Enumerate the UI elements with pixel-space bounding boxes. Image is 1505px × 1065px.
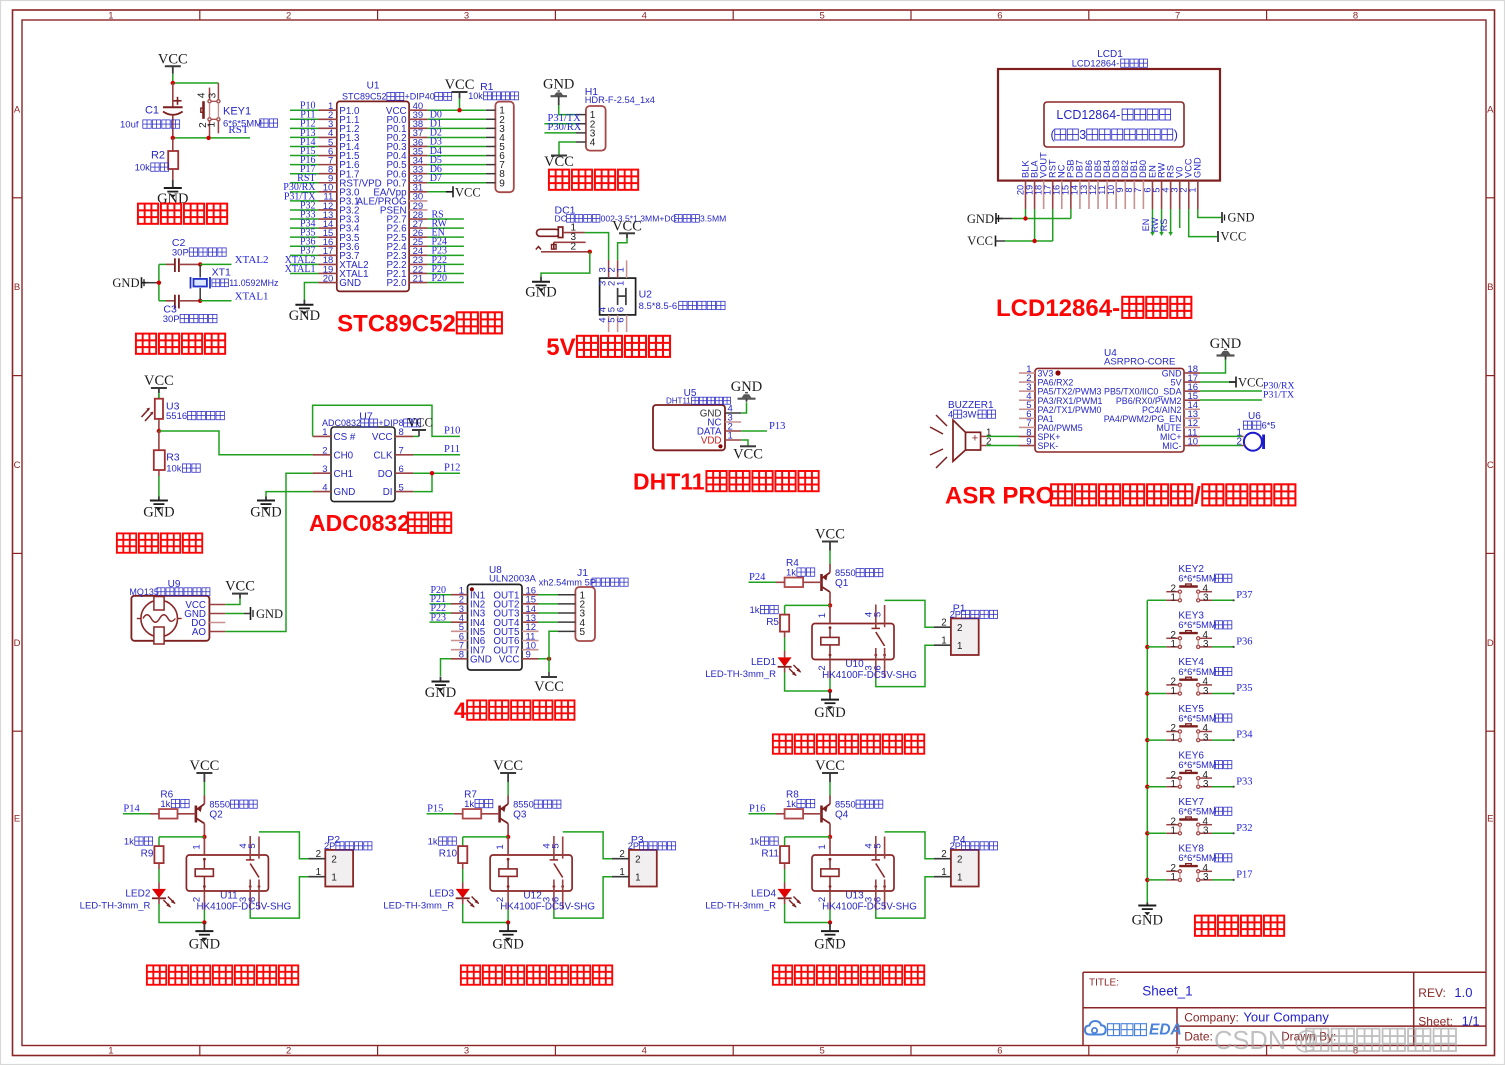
wire PB6 to P31/TX: [1200, 390, 1294, 401]
wire KEY5 to P34: [1212, 730, 1253, 742]
port VCC (LCD left): [967, 234, 1005, 248]
transistor Q1 8550: [822, 564, 883, 605]
wire relay COM to P2 pin1: [250, 877, 308, 918]
svg-text:VCC: VCC: [144, 373, 174, 389]
svg-text:VCC: VCC: [499, 654, 520, 665]
svg-text:D: D: [1487, 638, 1494, 649]
transistor Q3 8550: [500, 796, 561, 837]
svg-text:P36: P36: [1236, 637, 1252, 648]
svg-text:VCC: VCC: [225, 579, 255, 595]
svg-text:VCC: VCC: [612, 218, 642, 234]
svg-text:STC89C52: STC89C52: [342, 92, 387, 102]
svg-text:1k: 1k: [428, 837, 438, 848]
svg-text:DC: DC: [555, 214, 567, 224]
microphone U6: [1237, 411, 1276, 451]
label 晶振电路: [136, 334, 225, 354]
svg-text:AO: AO: [192, 627, 207, 638]
svg-text:6*6*5MM: 6*6*5MM: [1178, 807, 1216, 817]
ground (U5): [731, 379, 762, 402]
port GND (U9): [251, 607, 284, 621]
wire P16 net: [749, 804, 776, 815]
svg-text:U2: U2: [639, 289, 653, 301]
port GND (LCD left): [967, 212, 1012, 226]
power flag VCC (R1): [445, 77, 475, 110]
svg-text:6*6*5MM: 6*6*5MM: [1178, 713, 1216, 723]
wire P14 net: [123, 804, 150, 815]
svg-text:GND: GND: [289, 308, 320, 324]
mcu U1 STC89C52: [319, 81, 452, 292]
wire LCD pin2 vcc right: [1189, 209, 1217, 237]
svg-text:LED3: LED3: [429, 889, 454, 900]
svg-text:P23: P23: [430, 612, 446, 623]
svg-text:GND: GND: [492, 937, 523, 953]
svg-text:7: 7: [399, 446, 404, 457]
svg-text:GND: GND: [525, 284, 556, 300]
svg-text:4: 4: [948, 410, 953, 420]
gas sensor U9 MQ135: [129, 579, 225, 644]
svg-text:VCC: VCC: [189, 758, 219, 774]
svg-text:P13: P13: [769, 421, 785, 432]
svg-text:1: 1: [616, 281, 627, 286]
svg-text:VCC: VCC: [534, 679, 564, 695]
svg-text:1: 1: [616, 267, 627, 272]
svg-text:2: 2: [331, 855, 336, 866]
svg-text:8: 8: [399, 427, 404, 438]
wire VDD to VCC: [718, 440, 748, 448]
svg-text:P34: P34: [1236, 730, 1253, 741]
svg-text:ASRPRO-CORE: ASRPRO-CORE: [1104, 357, 1175, 368]
svg-text:+DIP40: +DIP40: [404, 92, 434, 102]
svg-text:3: 3: [1203, 686, 1209, 697]
svg-text:5V: 5V: [546, 334, 575, 361]
svg-text:GND: GND: [339, 278, 361, 289]
led LED4: [705, 889, 830, 923]
wire U4 GND: [1200, 360, 1226, 374]
svg-text:1k: 1k: [749, 605, 759, 616]
svg-text:1: 1: [728, 431, 733, 442]
svg-text:C: C: [14, 460, 21, 471]
wire KEY3 left: [1147, 646, 1166, 648]
relay U13 HK4100F: [812, 836, 917, 923]
wire KEY6 left: [1147, 786, 1166, 788]
label 4相步进电机: [454, 698, 574, 723]
label ADC0832芯片: [309, 510, 451, 536]
svg-text:4: 4: [322, 482, 327, 493]
pushbutton KEY3: [1166, 611, 1232, 651]
svg-text:CS #: CS #: [334, 432, 356, 443]
label 下载接口: [549, 170, 638, 190]
port GND (LCD right): [1222, 211, 1255, 225]
svg-text:LED-TH-3mm_R: LED-TH-3mm_R: [705, 669, 776, 680]
power flag VCC (reset circuit): [158, 51, 188, 83]
wire U3/R3 junction to ADC CH0: [157, 429, 313, 455]
mcu right stubs P2/RS/RW/EN: [427, 209, 464, 283]
svg-text:CLK: CLK: [373, 450, 393, 461]
svg-text:VCC: VCC: [815, 527, 845, 543]
svg-text:Date:: Date:: [1184, 1029, 1213, 1043]
svg-text:5: 5: [819, 11, 824, 22]
wire KEY4 to P35: [1212, 683, 1253, 695]
ground (U7): [250, 497, 281, 521]
svg-text:1: 1: [1188, 187, 1198, 192]
svg-text:1: 1: [1171, 779, 1176, 790]
label 制冷控制继电器: [773, 965, 924, 984]
resistor R5: [749, 605, 789, 657]
svg-text:5: 5: [551, 843, 562, 848]
svg-text:GND: GND: [1132, 913, 1163, 929]
svg-text:10k: 10k: [166, 464, 182, 475]
terminal P2: [308, 834, 372, 887]
svg-text:C: C: [1487, 460, 1494, 471]
wire VCC to C1/KEY1: [171, 81, 219, 85]
svg-text:R5: R5: [766, 617, 779, 628]
svg-text:8.5*8.5-6: 8.5*8.5-6: [639, 301, 678, 312]
relay U11 HK4100F: [186, 836, 291, 923]
svg-text:2P: 2P: [324, 841, 335, 851]
power flag VCC (U7): [407, 416, 433, 437]
svg-text:1k: 1k: [749, 837, 759, 848]
svg-text:3: 3: [1203, 779, 1209, 790]
svg-text:6*6*5MM: 6*6*5MM: [1178, 574, 1216, 584]
svg-text:6: 6: [616, 317, 627, 322]
wire U9 AO to ADC CH1: [225, 473, 312, 631]
svg-text:+: +: [972, 433, 978, 445]
mcu GND wire + ground: [289, 283, 320, 324]
resistor R3: [154, 431, 200, 497]
label 加湿控制继电器: [773, 734, 924, 753]
ground (keyboard): [1132, 903, 1163, 929]
capacitor C3: [163, 295, 217, 325]
svg-text:8550: 8550: [835, 568, 856, 578]
wire KEY5 left: [1147, 739, 1166, 741]
svg-text:2P: 2P: [950, 841, 961, 851]
svg-text:Your Company: Your Company: [1243, 1009, 1329, 1024]
svg-text:1: 1: [957, 641, 962, 652]
buzzer BUZZER1: [930, 400, 996, 468]
ground (U11): [189, 923, 220, 953]
svg-text:6: 6: [997, 1046, 1002, 1057]
wire XTAL1 net: [200, 290, 268, 302]
svg-text:GND: GND: [256, 607, 283, 621]
wire XTAL2 net: [200, 254, 268, 266]
wire U8 VCC / J1 pin5: [538, 631, 558, 672]
svg-text:HDR-F-2.54_1x4: HDR-F-2.54_1x4: [585, 95, 655, 105]
wire DATA to P13: [741, 421, 785, 432]
wire P30/RX stub: [544, 122, 581, 133]
wire relay NO to P4 pin2: [885, 832, 934, 859]
svg-text:P16: P16: [749, 804, 765, 815]
label ASR PRO语音识别模块/语音播报: [945, 483, 1295, 510]
capacitor C1: [120, 83, 183, 138]
wire LCD gnd row (pins 20,15): [1012, 209, 1071, 221]
power flag VCC (Q4): [815, 758, 845, 796]
svg-text:HK4100F-DC5V-SHG: HK4100F-DC5V-SHG: [822, 670, 917, 681]
svg-text:Sheet_1: Sheet_1: [1142, 984, 1192, 999]
svg-text:5516: 5516: [166, 411, 187, 422]
svg-text:1: 1: [635, 873, 640, 884]
svg-text:9: 9: [1026, 436, 1031, 447]
wire U7 GND: [266, 492, 313, 497]
svg-text:20: 20: [323, 273, 334, 284]
wire buzzer to SPK-: [986, 445, 1019, 447]
wire U8 GND: [441, 659, 452, 676]
svg-text:2: 2: [316, 849, 321, 860]
resistor R6: [150, 790, 196, 819]
svg-text:1: 1: [1171, 872, 1176, 883]
wire DO/DI to P12: [413, 462, 460, 491]
svg-text:VCC: VCC: [1238, 376, 1264, 390]
svg-text:2: 2: [286, 11, 291, 22]
svg-text:10k: 10k: [468, 91, 483, 101]
label 制热控制继电器: [461, 965, 612, 984]
svg-text:8550: 8550: [209, 800, 230, 810]
svg-text:8550: 8550: [513, 800, 534, 810]
ground (reset circuit): [157, 180, 188, 207]
svg-text:2P: 2P: [950, 610, 961, 620]
svg-text:Sheet:: Sheet:: [1418, 1015, 1453, 1029]
label STC89C52芯片: [337, 311, 502, 338]
transistor Q2 8550: [196, 796, 257, 837]
svg-text:4: 4: [454, 698, 467, 723]
svg-text:2: 2: [941, 849, 946, 860]
svg-text:10: 10: [1188, 436, 1199, 447]
svg-text:DHT11: DHT11: [666, 397, 691, 406]
svg-text:1: 1: [316, 867, 321, 878]
svg-text:4: 4: [642, 1046, 647, 1057]
svg-text:1: 1: [1171, 593, 1176, 604]
svg-text:1: 1: [322, 427, 327, 438]
svg-text:R11: R11: [761, 849, 779, 860]
svg-text:A: A: [14, 104, 21, 115]
pushbutton KEY2: [1166, 564, 1232, 604]
ground (U3/R3): [143, 497, 174, 521]
svg-text:6: 6: [616, 307, 627, 312]
svg-text:6*6*5MM: 6*6*5MM: [1178, 620, 1216, 630]
wire U4 MIC- to U6: [1200, 445, 1242, 447]
svg-text:VDD: VDD: [701, 436, 722, 447]
svg-text:3.5MM: 3.5MM: [700, 214, 726, 224]
svg-text:HK4100F-DC5V-SHG: HK4100F-DC5V-SHG: [500, 901, 595, 912]
svg-text:R3: R3: [166, 452, 180, 464]
svg-text:5: 5: [873, 612, 884, 617]
power flag VCC (U3): [144, 373, 174, 399]
led LED2: [80, 889, 205, 923]
svg-text:3: 3: [1203, 732, 1209, 743]
ground (U10): [814, 691, 845, 721]
wire PB5 to P30/RX: [1200, 381, 1295, 392]
svg-text:6*6*5MM: 6*6*5MM: [1178, 853, 1216, 863]
mcu left net stubs: [283, 101, 318, 275]
svg-text:3: 3: [208, 92, 219, 98]
resistor R10: [428, 837, 468, 889]
svg-text:6*6*5MM: 6*6*5MM: [1178, 760, 1216, 770]
title block: [1083, 972, 1486, 1045]
svg-text:1: 1: [108, 1046, 113, 1057]
ground (U8): [425, 677, 456, 702]
svg-text:TITLE:: TITLE:: [1089, 978, 1119, 989]
wire keyboard gnd bus: [1145, 600, 1149, 903]
led LED1: [705, 657, 830, 691]
svg-text:GND: GND: [1193, 157, 1203, 178]
svg-text:P33: P33: [1236, 776, 1252, 787]
power flag VCC (DC1): [612, 218, 642, 238]
svg-text:P31/TX: P31/TX: [1263, 390, 1294, 401]
wire P15 net: [427, 804, 454, 815]
svg-text:P32: P32: [1236, 823, 1252, 834]
svg-text:LED4: LED4: [751, 889, 776, 900]
wire crystal gnd rail: [157, 264, 166, 300]
svg-text:3: 3: [1079, 128, 1086, 142]
svg-text:3: 3: [1203, 639, 1209, 650]
wire CLK to P11: [413, 444, 460, 455]
svg-text:VCC: VCC: [815, 758, 845, 774]
svg-text:B: B: [1487, 282, 1493, 293]
port GND (crystal): [112, 276, 158, 290]
label 复位电路: [138, 204, 227, 224]
wire base junction to R11: [785, 835, 833, 846]
svg-text:10k: 10k: [135, 163, 151, 174]
svg-text:U6: U6: [1248, 411, 1261, 422]
svg-text:5: 5: [580, 627, 586, 638]
svg-text:STC89C52: STC89C52: [337, 311, 456, 338]
svg-text:7: 7: [1175, 11, 1180, 22]
svg-text:C1: C1: [145, 105, 159, 117]
svg-text:1: 1: [108, 11, 113, 22]
svg-text:5: 5: [247, 843, 258, 848]
svg-text:B: B: [14, 282, 20, 293]
svg-text:U10: U10: [845, 659, 864, 670]
svg-text:VCC: VCC: [407, 416, 433, 430]
svg-text:VCC: VCC: [158, 51, 188, 67]
relay U10 HK4100F: [812, 605, 917, 692]
wire KEY8 to P17: [1212, 870, 1253, 882]
svg-text:1: 1: [206, 121, 217, 127]
relay U12 HK4100F: [490, 836, 595, 923]
svg-text:1: 1: [1171, 826, 1176, 837]
resistor R4: [776, 558, 822, 587]
svg-text:U11: U11: [220, 891, 238, 902]
svg-text:3: 3: [464, 11, 469, 22]
wire H1 pin1 gnd: [559, 105, 576, 114]
svg-text:3W-: 3W-: [962, 410, 979, 420]
svg-text:VCC: VCC: [1221, 230, 1247, 244]
wire U13 gnd junction: [828, 920, 832, 924]
svg-text:P11: P11: [444, 444, 460, 455]
svg-text:ASR PRO: ASR PRO: [945, 483, 1054, 510]
svg-text:LED-TH-3mm_R: LED-TH-3mm_R: [80, 901, 151, 912]
svg-text:VCC: VCC: [544, 154, 574, 170]
power flag VCC (U8): [534, 672, 564, 695]
svg-text:8: 8: [459, 650, 464, 661]
svg-text:LCD12864-: LCD12864-: [996, 295, 1120, 322]
wire base junction to R5: [785, 603, 833, 614]
svg-text:GND: GND: [425, 685, 456, 701]
terminal P4: [934, 834, 998, 887]
svg-text:R9: R9: [141, 849, 154, 860]
svg-text:LCD12864-: LCD12864-: [1056, 108, 1120, 122]
svg-text:8550: 8550: [835, 800, 856, 810]
wire U4 MIC+ to U6: [1200, 435, 1242, 437]
svg-text:R2: R2: [151, 150, 165, 162]
wires U8 inputs P20-P23: [430, 585, 452, 623]
svg-text:7: 7: [1175, 1046, 1180, 1057]
svg-text:D: D: [14, 638, 21, 649]
wire U5 GND: [741, 402, 746, 413]
svg-text:ADC0832: ADC0832: [309, 510, 410, 536]
svg-text:LCD12864-: LCD12864-: [1072, 59, 1120, 69]
svg-text:/: /: [1194, 483, 1201, 510]
svg-text:Company:: Company:: [1184, 1010, 1239, 1024]
svg-text:P20: P20: [432, 273, 448, 284]
wire LCD vcc row (pins 19,17): [1005, 209, 1053, 243]
svg-text:1/1: 1/1: [1462, 1014, 1480, 1029]
wire VCC to R1 pin1: [427, 108, 486, 112]
svg-text:30P: 30P: [172, 248, 189, 259]
pushbutton KEY1: [196, 83, 277, 138]
wire relay COM to P4 pin1: [876, 877, 934, 918]
svg-text:4: 4: [642, 11, 647, 22]
svg-text:2: 2: [635, 855, 640, 866]
svg-text:xh2.54mm 5P: xh2.54mm 5P: [539, 578, 596, 588]
wires U8 outputs to J1: [538, 595, 558, 622]
svg-text:HK4100F-DC5V-SHG: HK4100F-DC5V-SHG: [822, 901, 917, 912]
svg-text:3: 3: [1203, 826, 1209, 837]
svg-text:1: 1: [1171, 686, 1176, 697]
ground (U13): [814, 923, 845, 953]
wire KEY7 to P32: [1212, 823, 1253, 835]
power flag VCC (Q2): [189, 758, 219, 796]
dht11 U5: [653, 388, 741, 450]
watermark CSDN: [1214, 1027, 1456, 1055]
wire VCC to U2 pin2: [618, 238, 627, 260]
svg-text:XTAL1: XTAL1: [285, 264, 316, 275]
pushbutton KEY5: [1166, 704, 1232, 744]
wire KEY2 to P37: [1212, 590, 1253, 602]
svg-text:6*5: 6*5: [1262, 421, 1276, 431]
svg-text:5: 5: [819, 1046, 824, 1057]
svg-text:3: 3: [1203, 872, 1209, 883]
ground (U12): [492, 923, 523, 953]
wire relay NO to P2 pin2: [259, 832, 308, 859]
label 5V电源供给: [546, 334, 670, 361]
svg-text:VCC: VCC: [493, 758, 523, 774]
wire U9 VCC: [225, 599, 240, 605]
svg-text:XTAL1: XTAL1: [235, 290, 269, 302]
svg-text:LED2: LED2: [125, 889, 150, 900]
svg-text:P17: P17: [1236, 870, 1252, 881]
svg-text:2: 2: [286, 1046, 291, 1057]
svg-text:ULN2003A: ULN2003A: [489, 574, 537, 585]
power flag VCC (Q1): [815, 527, 845, 565]
terminal P1: [934, 603, 998, 656]
svg-text:6: 6: [399, 464, 404, 475]
svg-text:): ): [1174, 128, 1178, 142]
wire KEY2 left: [1147, 599, 1166, 601]
wire base junction to R9: [159, 835, 207, 846]
svg-text:30P: 30P: [163, 314, 180, 325]
wire KEY3 to P36: [1212, 637, 1253, 649]
svg-text:VCC: VCC: [733, 447, 763, 463]
svg-text:P24: P24: [749, 572, 766, 583]
svg-text:9: 9: [526, 650, 531, 661]
svg-text:6: 6: [997, 11, 1002, 22]
svg-text:Q2: Q2: [209, 810, 223, 821]
svg-text:CH0: CH0: [334, 450, 354, 461]
driver U8 ULN2003A: [451, 565, 539, 670]
svg-text:2: 2: [322, 446, 327, 457]
wire relay NO to P1 pin2: [885, 600, 934, 627]
svg-text:P10: P10: [444, 426, 460, 437]
